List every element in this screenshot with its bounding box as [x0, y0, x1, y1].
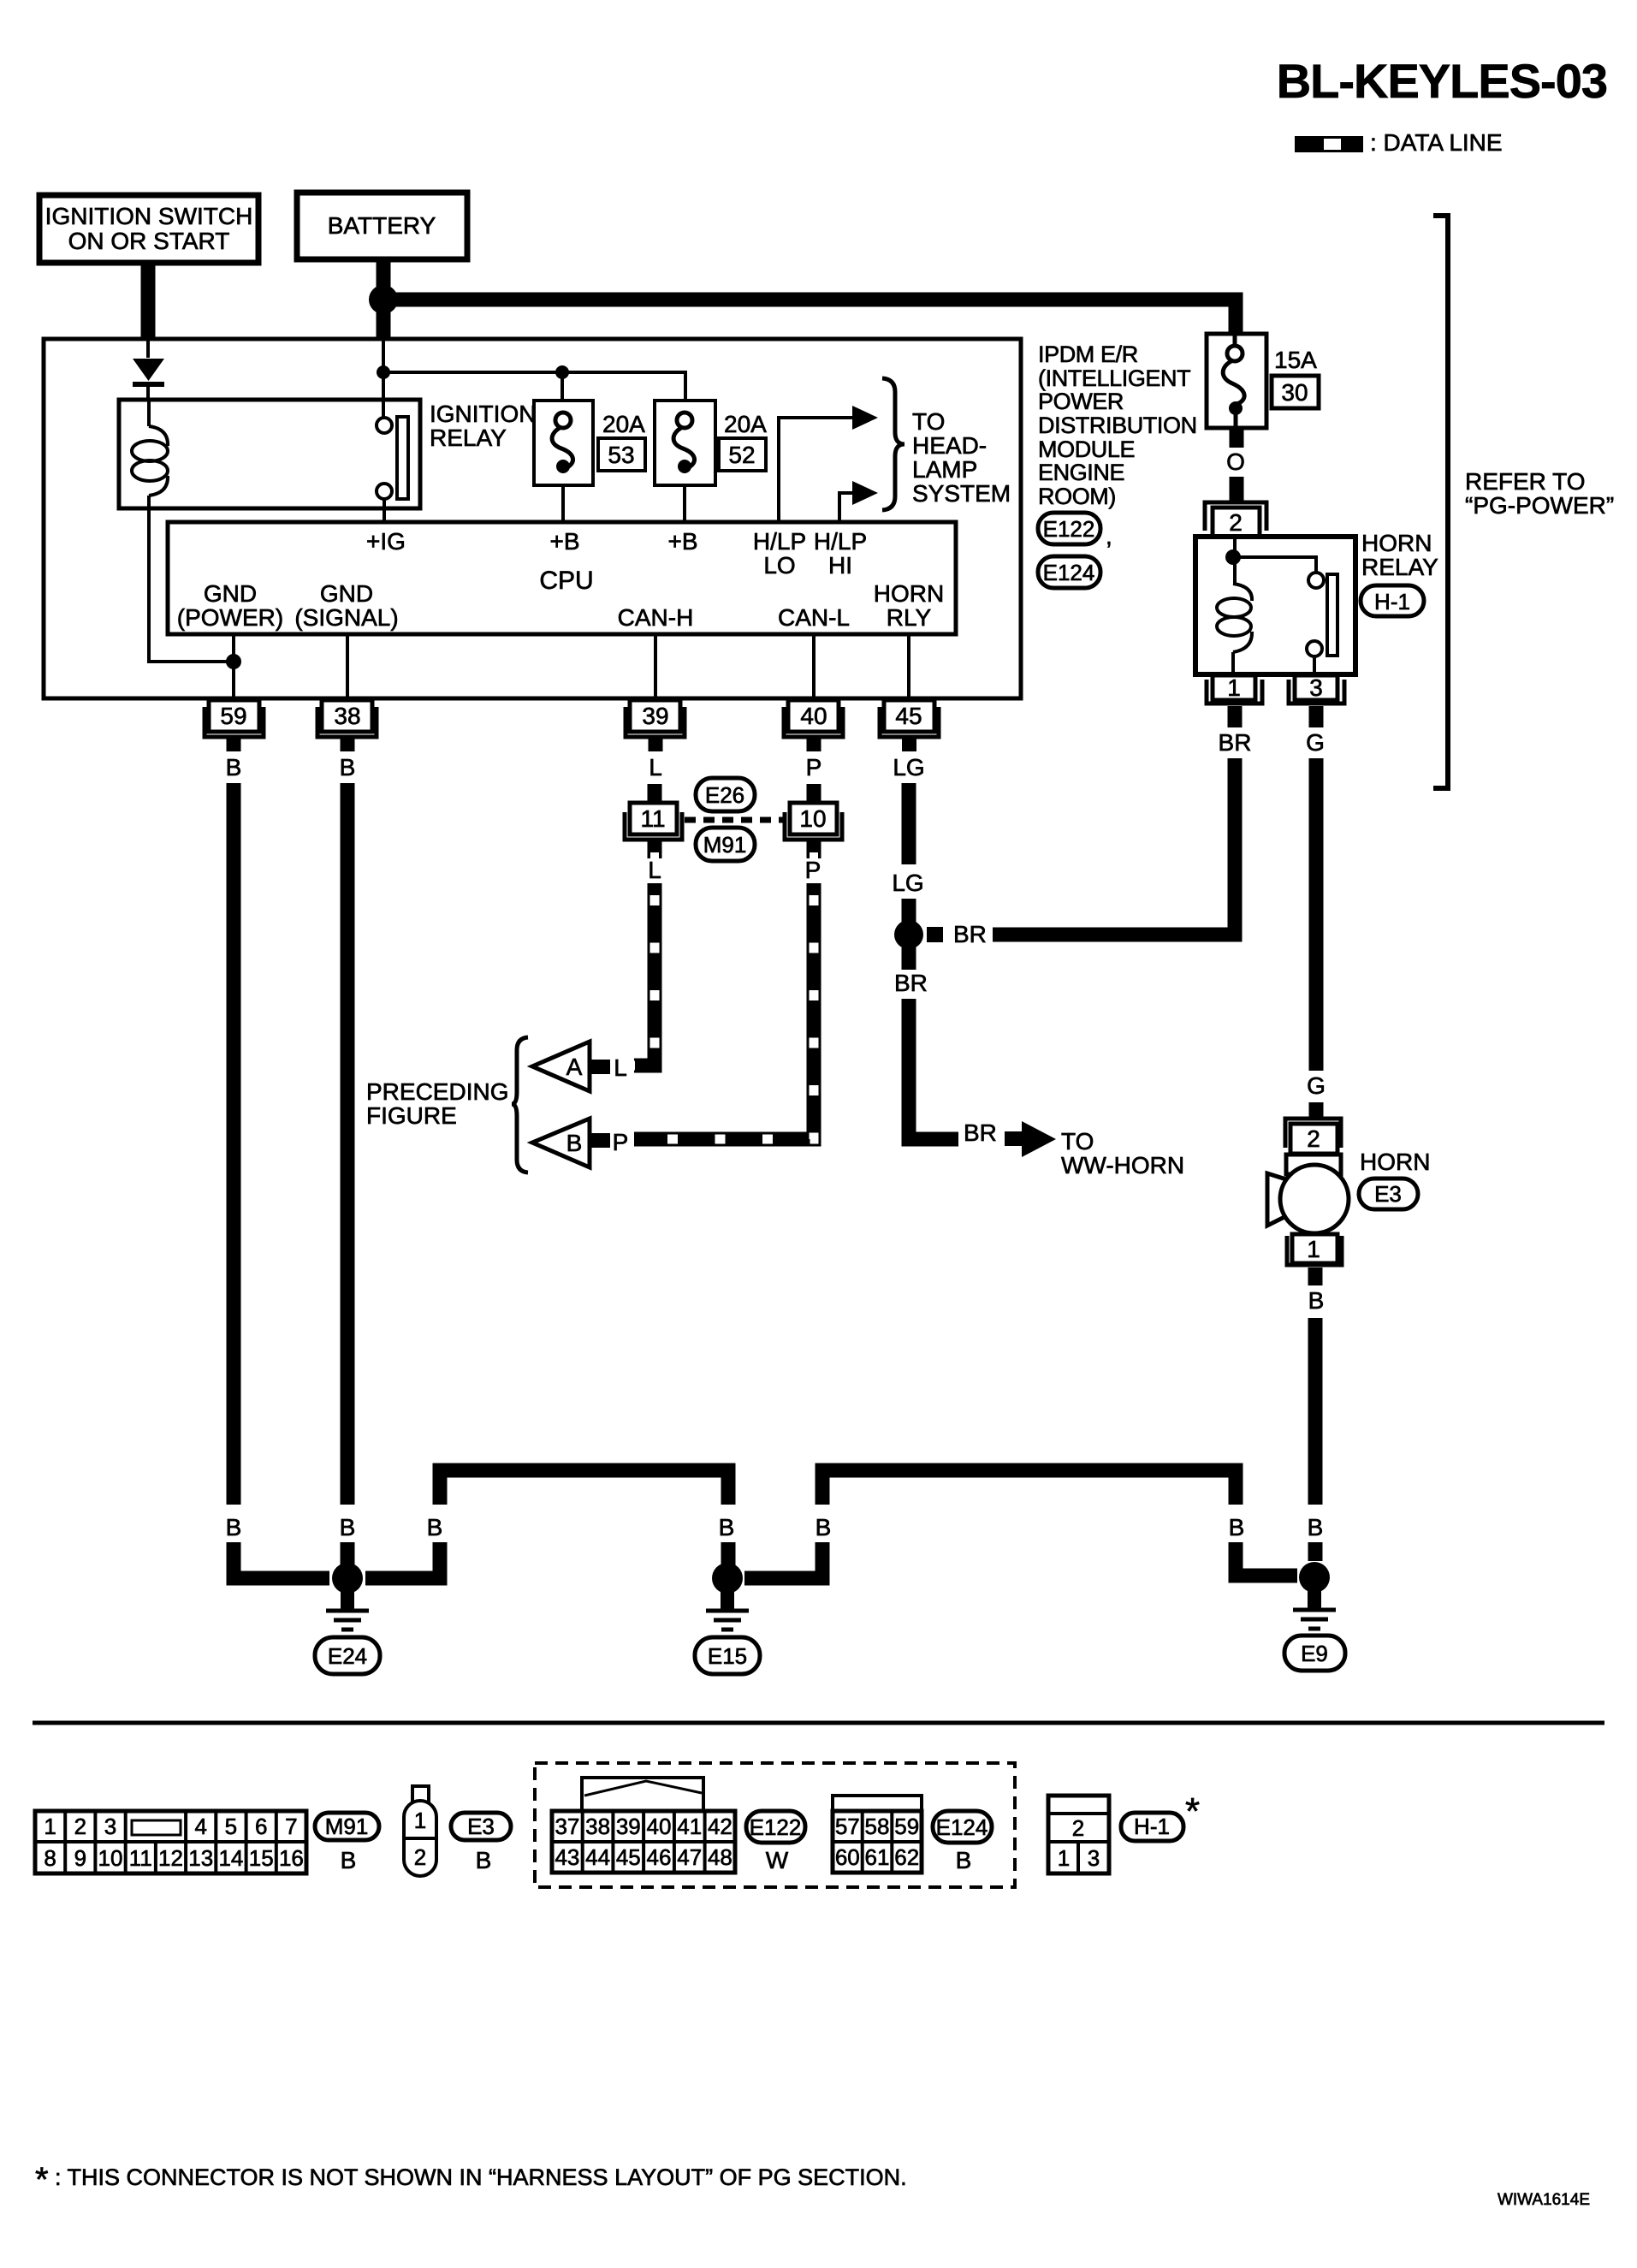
svg-text:REFER TO: REFER TO: [1465, 468, 1586, 495]
svg-text:3: 3: [1088, 1845, 1100, 1871]
svg-text:2: 2: [1307, 1125, 1320, 1152]
svg-text:LO: LO: [763, 552, 795, 579]
fuse F53 box: [534, 401, 593, 485]
fuse 52 number box: [719, 438, 766, 471]
connector 1 horn relay: [1207, 674, 1262, 727]
svg-text:H/LP: H/LP: [814, 528, 867, 555]
svg-text:1: 1: [1307, 1236, 1320, 1262]
svg-text:45: 45: [895, 703, 922, 729]
connector 2 horn relay: [1205, 502, 1266, 537]
connector pin 38: [317, 700, 377, 751]
svg-text:BR: BR: [964, 1119, 997, 1146]
label H/LP LO: [753, 528, 806, 579]
svg-text:40: 40: [800, 703, 827, 729]
fuse F30 15A box: [1207, 334, 1266, 428]
wire battery into relay contact: [382, 339, 385, 418]
arrow to WW-HORN: [1005, 1121, 1056, 1157]
svg-text:B: B: [226, 754, 242, 781]
svg-text:H-1: H-1: [1374, 589, 1410, 614]
svg-text:WIWA1614E: WIWA1614E: [1498, 2191, 1590, 2209]
svg-text:DISTRIBUTION: DISTRIBUTION: [1038, 413, 1197, 438]
wire L stub to connector 11: [648, 784, 662, 804]
svg-text:52: 52: [728, 442, 755, 468]
svg-text:B: B: [427, 1514, 443, 1541]
svg-text:RLY: RLY: [887, 604, 932, 631]
wire H/LP HI to headlamp: [839, 493, 852, 522]
connector oval H-1: [1361, 585, 1424, 616]
svg-text:LG: LG: [893, 754, 924, 781]
wire coil to ground junction: [149, 508, 228, 662]
brace preceding figure: [512, 1037, 528, 1173]
svg-text:CAN-H: CAN-H: [618, 604, 694, 631]
svg-text:LG: LG: [892, 870, 923, 896]
wire fuse 52 to +B: [683, 485, 686, 522]
svg-text:RELAY: RELAY: [1361, 554, 1438, 580]
svg-text:4: 4: [194, 1814, 206, 1839]
connector oval H-1 bottom: [1121, 1813, 1183, 1841]
ground symbol E24: [326, 1592, 369, 1630]
svg-text:2: 2: [74, 1814, 86, 1839]
ignition relay label: [430, 401, 536, 451]
svg-text:W: W: [766, 1847, 789, 1873]
svg-text:30: 30: [1281, 379, 1308, 406]
label preceding figure: [366, 1078, 508, 1129]
svg-text:B: B: [340, 1514, 356, 1541]
wire relay to +IG: [383, 499, 386, 522]
label TO WW-HORN: [1061, 1128, 1184, 1179]
svg-text:40: 40: [647, 1814, 672, 1839]
node BR junction: [894, 920, 923, 949]
svg-text:*: *: [35, 2161, 49, 2199]
wire busB to E9: [1236, 1542, 1297, 1576]
svg-text:(SIGNAL): (SIGNAL): [294, 604, 398, 631]
svg-text:BL-KEYLES-03: BL-KEYLES-03: [1277, 54, 1607, 108]
wire 59 to E24: [234, 1542, 329, 1578]
svg-text:14: 14: [218, 1845, 243, 1871]
wire pin 40: [812, 634, 816, 700]
connector pin 40: [784, 700, 843, 751]
svg-text:L: L: [649, 754, 662, 781]
connector oval M91: [696, 828, 755, 861]
svg-text:53: 53: [608, 442, 634, 468]
horn relay coil: [1217, 584, 1252, 674]
svg-text:39: 39: [616, 1814, 641, 1839]
connector grid H-1: [1048, 1796, 1109, 1873]
svg-text:59: 59: [894, 1814, 919, 1839]
label GND POWER: [177, 580, 283, 631]
label H/LP HI: [814, 528, 867, 579]
arrow headlamp low: [852, 406, 878, 430]
svg-text:11: 11: [129, 1845, 152, 1871]
connector grid E122: [552, 1778, 735, 1873]
connector grid E124: [833, 1796, 922, 1873]
svg-text:10: 10: [799, 805, 826, 832]
wire BR to WW-HORN: [909, 999, 958, 1139]
svg-text:POWER: POWER: [1038, 389, 1124, 414]
connector grid M91: [35, 1811, 306, 1873]
connector oval E122: [1038, 513, 1112, 549]
svg-text:12: 12: [158, 1845, 183, 1871]
data line CAN-H L: [634, 840, 662, 1066]
svg-text:B: B: [1229, 1514, 1245, 1541]
wire busA to E24: [365, 1542, 440, 1578]
svg-text:ON OR START: ON OR START: [68, 228, 230, 254]
svg-text:A: A: [566, 1054, 583, 1080]
connector oval E15: [695, 1637, 760, 1674]
svg-text:P: P: [805, 857, 821, 883]
wire branch to contact: [1233, 557, 1316, 573]
triangle connector B: [532, 1119, 610, 1167]
svg-text:20A: 20A: [602, 411, 645, 437]
wire ignition switch to IPDM: [141, 263, 156, 340]
svg-text:ROOM): ROOM): [1038, 484, 1116, 509]
svg-text:B: B: [1308, 1514, 1324, 1541]
svg-text:SYSTEM: SYSTEM: [912, 480, 1011, 507]
wire stub right of junction: [927, 927, 943, 942]
svg-text:M91: M91: [325, 1814, 369, 1839]
svg-text:5: 5: [225, 1814, 237, 1839]
svg-text:61: 61: [865, 1844, 890, 1870]
wire busA to E15: [721, 1542, 736, 1566]
svg-text:: DATA LINE: : DATA LINE: [1370, 129, 1503, 156]
svg-text:48: 48: [708, 1844, 732, 1870]
svg-text:41: 41: [677, 1814, 702, 1839]
wire ground bus A: [440, 1470, 728, 1505]
connector E3 capsule: [404, 1786, 436, 1876]
label refer to pg-power: [1465, 468, 1614, 519]
wire G horn relay down: [1309, 758, 1324, 1071]
svg-text:BR: BR: [953, 921, 987, 947]
svg-text:G: G: [1307, 1072, 1326, 1099]
svg-text:1: 1: [1227, 674, 1241, 701]
svg-text:+IG: +IG: [366, 528, 406, 555]
diode D1: [133, 359, 164, 400]
svg-text:H/LP: H/LP: [753, 528, 806, 555]
svg-text:P: P: [806, 754, 822, 781]
ignition relay coil: [132, 400, 168, 508]
label to headlamp system: [912, 408, 1011, 507]
svg-text:L: L: [648, 857, 661, 883]
connector 10: [785, 803, 842, 840]
svg-text:16: 16: [279, 1845, 304, 1871]
wire P stub to connector 10: [807, 784, 821, 804]
wire horn B to E9: [1308, 1542, 1323, 1561]
footnote: [35, 2161, 907, 2199]
ground symbol E9: [1293, 1591, 1336, 1629]
svg-text:O: O: [1226, 448, 1245, 475]
svg-text:42: 42: [708, 1814, 732, 1839]
node ground E15: [712, 1563, 743, 1594]
svg-text:9: 9: [74, 1845, 86, 1871]
svg-text:E122: E122: [750, 1814, 802, 1840]
svg-text:38: 38: [334, 703, 360, 729]
svg-text:E24: E24: [328, 1643, 367, 1669]
svg-text:ENGINE: ENGINE: [1038, 460, 1124, 485]
wire battery down: [377, 259, 391, 340]
svg-text:L: L: [614, 1054, 627, 1081]
svg-text:+B: +B: [549, 528, 579, 555]
label HORN RELAY: [1361, 530, 1438, 580]
wire ignition to diode: [146, 339, 150, 358]
svg-text:IGNITION: IGNITION: [430, 401, 536, 427]
svg-text:B: B: [341, 1847, 357, 1873]
triangle connector A: [532, 1042, 610, 1091]
svg-text:59: 59: [220, 703, 246, 729]
svg-text:HI: HI: [828, 552, 852, 579]
svg-text:39: 39: [642, 703, 668, 729]
wire conn2 into relay: [1233, 537, 1237, 584]
svg-text:E3: E3: [467, 1814, 495, 1839]
wire pin 38: [346, 634, 349, 700]
svg-text:*: *: [1185, 1790, 1200, 1832]
legend data-line symbol: [1295, 136, 1363, 152]
wire BR below junction: [902, 947, 916, 970]
svg-text:G: G: [1306, 729, 1325, 756]
svg-text:60: 60: [835, 1844, 860, 1870]
svg-text:E26: E26: [705, 782, 744, 808]
wire B horn down: [1308, 1318, 1323, 1505]
svg-text:1: 1: [44, 1814, 56, 1839]
node ground E24: [332, 1563, 363, 1594]
wire H/LP LO to headlamp: [779, 418, 852, 522]
wire fuse 30 to O: [1230, 428, 1244, 448]
svg-text:CAN-L: CAN-L: [778, 604, 850, 631]
svg-text:2: 2: [1072, 1815, 1084, 1841]
svg-text:45: 45: [616, 1844, 641, 1870]
IPDM E/R outer box: [44, 339, 1021, 698]
wire busB to E15: [744, 1542, 822, 1578]
wire LG down: [902, 783, 916, 864]
svg-text:,: ,: [1106, 523, 1112, 549]
horn relay box: [1195, 537, 1355, 674]
wire BR junction to horn relay: [993, 928, 1235, 942]
brace headlamp system: [882, 378, 905, 510]
svg-text:3: 3: [104, 1814, 116, 1839]
connector oval E124 bottom: [933, 1811, 992, 1843]
connector 11: [625, 803, 682, 840]
svg-text:2: 2: [1229, 509, 1243, 536]
svg-text:(INTELLIGENT: (INTELLIGENT: [1038, 365, 1190, 391]
connector oval E122 bottom: [746, 1811, 805, 1843]
svg-text:IPDM E/R: IPDM E/R: [1038, 341, 1138, 367]
wire fuse 53 to +B: [561, 485, 565, 522]
svg-text:TO: TO: [912, 408, 945, 435]
ignition switch box: [39, 195, 258, 263]
svg-text:E124: E124: [936, 1814, 988, 1840]
connector pin 59: [205, 700, 264, 751]
svg-text:IGNITION SWITCH: IGNITION SWITCH: [45, 203, 253, 229]
svg-text:10: 10: [98, 1845, 123, 1871]
connector 1 horn: [1287, 1236, 1342, 1285]
svg-text:46: 46: [647, 1844, 672, 1870]
svg-text:HORN: HORN: [874, 580, 944, 607]
svg-text:B: B: [719, 1514, 735, 1541]
horn relay contact: [1307, 573, 1337, 674]
connector 2 horn: [1285, 1119, 1341, 1154]
label IPDM E/R block: [1038, 341, 1197, 509]
wire BR horn relay down: [1228, 758, 1235, 935]
svg-text:57: 57: [835, 1814, 860, 1839]
svg-text:“PG-POWER”: “PG-POWER”: [1465, 492, 1614, 519]
svg-text:E15: E15: [708, 1643, 747, 1669]
ignition relay contact: [377, 417, 408, 499]
node ground E9: [1299, 1562, 1330, 1593]
wire branch to fuses: [383, 372, 685, 401]
connector oval E9: [1284, 1636, 1345, 1671]
ignition relay box: [119, 400, 420, 508]
wire 38 to E24: [341, 1542, 355, 1566]
dashed box E122 E124: [535, 1763, 1015, 1887]
svg-text:HORN: HORN: [1360, 1149, 1430, 1175]
connector 3 horn relay: [1289, 674, 1344, 727]
node fuse 53 branch: [555, 365, 569, 379]
svg-text:E9: E9: [1301, 1641, 1328, 1666]
label GND SIGNAL: [294, 580, 398, 631]
svg-text:CPU: CPU: [539, 567, 593, 595]
svg-text:M91: M91: [703, 832, 747, 858]
svg-text:B: B: [226, 1514, 242, 1541]
wire O to connector 2: [1230, 477, 1244, 502]
svg-text:HEAD-: HEAD-: [912, 432, 987, 459]
svg-text:H-1: H-1: [1134, 1814, 1170, 1839]
svg-text:E124: E124: [1043, 560, 1095, 585]
svg-text:47: 47: [677, 1844, 702, 1870]
svg-text:B: B: [956, 1847, 972, 1873]
svg-text:RELAY: RELAY: [430, 425, 507, 451]
bracket refer to pg-power: [1433, 216, 1448, 788]
svg-text:58: 58: [865, 1814, 890, 1839]
svg-text:44: 44: [585, 1844, 610, 1870]
wire into fuse 53: [560, 372, 564, 401]
node battery junction: [369, 285, 398, 314]
connector oval E26: [696, 778, 755, 811]
svg-text:B: B: [476, 1847, 492, 1873]
svg-text:E3: E3: [1374, 1181, 1402, 1207]
svg-text:11: 11: [640, 805, 665, 832]
label HORN RLY: [874, 580, 944, 631]
wire pin 45: [907, 634, 910, 700]
svg-text:GND: GND: [320, 580, 373, 607]
svg-text:37: 37: [555, 1814, 579, 1839]
svg-text:62: 62: [894, 1844, 919, 1870]
wire battery bus to fuse 30: [383, 300, 1236, 335]
connector oval E3 bottom: [451, 1813, 511, 1840]
fuse 53 number box: [598, 438, 645, 471]
svg-text:MODULE: MODULE: [1038, 436, 1135, 462]
wire pin 39: [654, 634, 657, 700]
svg-text:B: B: [1308, 1287, 1325, 1314]
connector oval E124: [1038, 556, 1100, 588]
connector oval M91 bottom: [315, 1813, 379, 1840]
svg-text:PRECEDING: PRECEDING: [366, 1078, 508, 1105]
svg-text:BATTERY: BATTERY: [328, 212, 436, 239]
wire B pin38 down: [341, 783, 355, 1505]
arrow headlamp high: [852, 481, 878, 505]
svg-text:E122: E122: [1043, 516, 1095, 542]
svg-text:8: 8: [44, 1845, 56, 1871]
CPU box: [168, 522, 956, 634]
node horn relay branch: [1225, 549, 1241, 565]
node battery branch: [377, 365, 390, 379]
svg-text:B: B: [340, 754, 356, 781]
svg-text:38: 38: [585, 1814, 610, 1839]
svg-text:B: B: [816, 1514, 832, 1541]
connector pin 39: [626, 700, 685, 751]
fuse F52 box: [655, 401, 715, 485]
svg-text:WW-HORN: WW-HORN: [1061, 1152, 1184, 1179]
wire dashed E26-M91 link: [685, 817, 784, 823]
svg-text:BR: BR: [894, 970, 928, 996]
wire B pin59 down: [227, 783, 241, 1505]
svg-text:7: 7: [285, 1814, 297, 1839]
data line CAN-L P: [634, 840, 821, 1139]
node gnd power junction: [226, 654, 241, 669]
connector oval E24: [315, 1637, 380, 1674]
svg-text:6: 6: [255, 1814, 267, 1839]
svg-text:43: 43: [555, 1844, 579, 1870]
svg-text:FIGURE: FIGURE: [366, 1102, 457, 1129]
svg-text:: THIS CONNECTOR IS NOT SHOWN: : THIS CONNECTOR IS NOT SHOWN IN “HARNES…: [55, 2164, 907, 2190]
separator line: [33, 1721, 1604, 1725]
svg-text:20A: 20A: [724, 411, 767, 437]
svg-text:15A: 15A: [1274, 347, 1317, 373]
svg-text:P: P: [613, 1129, 629, 1155]
svg-text:GND: GND: [204, 580, 257, 607]
svg-text:B: B: [566, 1130, 583, 1156]
svg-text:HORN: HORN: [1361, 530, 1432, 556]
svg-text:13: 13: [188, 1845, 213, 1871]
wire G stub to horn: [1309, 1102, 1324, 1119]
ground symbol E15: [706, 1592, 749, 1630]
horn body E3: [1267, 1155, 1349, 1263]
svg-text:+B: +B: [667, 528, 697, 555]
svg-text:1: 1: [414, 1808, 426, 1833]
svg-text:TO: TO: [1061, 1128, 1094, 1155]
svg-text:1: 1: [1058, 1845, 1070, 1871]
svg-text:(POWER): (POWER): [177, 604, 283, 631]
svg-text:3: 3: [1309, 674, 1323, 701]
svg-text:15: 15: [249, 1845, 274, 1871]
wire LG to junction: [902, 899, 916, 923]
fuse 30 number box: [1272, 376, 1319, 408]
svg-text:BR: BR: [1219, 729, 1252, 756]
battery box: [297, 193, 467, 259]
wire pin 59: [232, 634, 235, 700]
connector pin 45: [880, 700, 939, 751]
connector oval E3: [1359, 1179, 1418, 1209]
svg-text:LAMP: LAMP: [912, 456, 977, 483]
wire ground bus B: [822, 1470, 1236, 1505]
svg-text:2: 2: [414, 1844, 426, 1870]
